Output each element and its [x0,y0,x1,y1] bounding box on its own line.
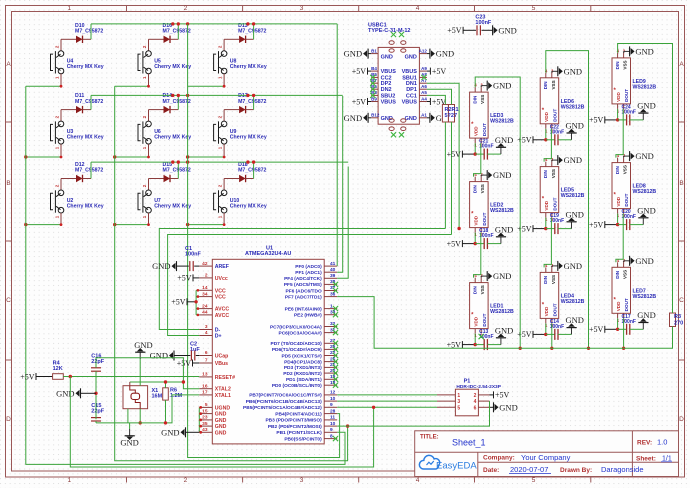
diode D15 [149,162,191,182]
ground [642,113,644,120]
svg-text:5: 5 [532,477,536,484]
svg-text:VBus: VBus [215,361,228,367]
svg-text:+5V: +5V [447,26,462,35]
wire: switch column serpentines [24,85,225,227]
switch U5 [138,39,191,86]
svg-text:PB5(PCINT5/OC1A/OC4B#/ADC12): PB5(PCINT5/OC1A/OC4B#/ADC12) [243,405,322,411]
LED LED4 WS2812B [540,263,584,328]
ground at LED9 VSS [624,46,654,56]
svg-text:GND: GND [495,325,513,335]
wire: diode nets down to U1 PF0/PF1/PF4 [337,24,348,278]
svg-text:DOUT: DOUT [482,313,487,326]
svg-text:GND: GND [215,418,227,424]
svg-text:22pF: 22pF [91,359,104,365]
wire: reset net [63,375,199,378]
svg-text:C: C [6,297,11,304]
capacitor C14 100nF [517,319,571,340]
svg-text:14: 14 [202,285,208,291]
svg-text:DN2: DN2 [381,87,392,93]
svg-text:GND: GND [493,81,511,91]
ground at LED4 VSS [552,261,582,271]
LED LED7 WS2812B [612,258,656,323]
svg-text:PF6 (ADC6/TDO: PF6 (ADC6/TDO [285,288,322,294]
ground above crystal [134,340,152,386]
svg-text:100nF: 100nF [185,252,202,258]
svg-text:36: 36 [330,291,336,297]
svg-text:A5: A5 [421,90,427,95]
svg-text:+5V: +5V [171,298,186,307]
svg-text:WS2812B: WS2812B [561,299,585,305]
svg-text:Sheet:: Sheet: [636,455,656,462]
svg-text:DOUT: DOUT [482,123,487,136]
svg-text:VDD: VDD [474,126,479,136]
svg-text:4: 4 [416,5,420,12]
svg-text:GND: GND [499,402,517,412]
svg-text:2: 2 [205,273,208,279]
svg-text:PE2 (HWB#): PE2 (HWB#) [294,313,322,319]
svg-text:100nF: 100nF [475,20,492,26]
svg-text:GND: GND [493,170,511,180]
wire: C16/C15 middle GND [56,371,98,419]
svg-text:VCC: VCC [215,295,226,301]
svg-text:DIN: DIN [472,286,477,295]
svg-text:VSS: VSS [551,169,556,178]
capacitor C15 22pF [91,403,105,421]
svg-text:40: 40 [330,267,336,273]
svg-text:6: 6 [205,350,208,356]
svg-text:Company:: Company: [483,455,515,462]
svg-text:+5V: +5V [352,67,367,76]
svg-text:REV:: REV: [637,440,652,447]
svg-text:5?27: 5?27 [445,113,458,119]
svg-text:42: 42 [202,261,208,267]
LED LED6 WS2812B [540,68,584,133]
svg-text:PD0 (OC0B/SCL/INT0): PD0 (OC0B/SCL/INT0) [272,383,322,389]
svg-text:3: 3 [300,5,304,12]
capacitor C21 100nF [447,139,501,160]
svg-text:GND: GND [637,101,655,111]
diode D17 [224,93,266,113]
svg-text:A1: A1 [421,113,427,118]
svg-text:+5V: +5V [447,150,462,159]
resistor R6 1.2M [163,388,183,401]
capacitor C1 100nF [152,246,201,271]
capacitor C17 100nF [589,314,643,335]
svg-text:8: 8 [330,433,333,439]
svg-text:A9: A9 [421,66,427,71]
svg-text:270: 270 [674,321,683,327]
wire: LED chain links [474,143,481,278]
svg-text:11: 11 [330,415,335,421]
diode D13 [224,23,266,43]
svg-text:AVCC: AVCC [215,313,230,319]
svg-text:DIN: DIN [543,275,548,284]
svg-text:+5V: +5V [447,239,462,248]
svg-text:34: 34 [202,291,208,297]
svg-text:VSS: VSS [623,165,628,174]
USB no-connect X marks [370,75,375,80]
svg-text:PD4(ICP1/ADC8): PD4(ICP1/ADC8) [284,359,322,365]
wire: GND stack bracket [161,406,202,437]
svg-text:1/1: 1/1 [662,455,672,462]
svg-text:Cherry MX Key: Cherry MX Key [230,64,267,70]
wire: LED7 DOUT to LED6 DIN [546,51,626,350]
svg-text:Cherry MX Key: Cherry MX Key [67,64,104,70]
svg-text:15: 15 [202,408,208,414]
resistor R3 270 [670,313,684,327]
diode D11 [61,93,103,113]
svg-text:GND: GND [637,205,655,215]
svg-text:GND: GND [381,55,393,61]
svg-text:PB2 (PDI/PCINT2/MOSI): PB2 (PDI/PCINT2/MOSI) [268,424,322,430]
svg-text:PB7(PCINT7/OC0A/OC1C/RTS#): PB7(PCINT7/OC0A/OC1C/RTS#) [249,393,322,399]
wire: XTAL1 net [96,395,199,425]
svg-text:PD5 (XCK1/CTS#): PD5 (XCK1/CTS#) [281,353,322,359]
capacitor C13 100nF [447,329,501,350]
switch U4 [51,39,104,86]
svg-text:GND: GND [493,271,511,281]
svg-text:TYPE-C-31-M-12: TYPE-C-31-M-12 [368,28,410,34]
svg-text:DIN: DIN [615,166,620,175]
switch U8 [214,39,267,86]
switch U3 [51,110,104,157]
USB +5V symbols [352,67,447,106]
svg-text:PC6(OC3A/OC4A#): PC6(OC3A/OC4A#) [279,330,323,336]
resistor R4 12K [20,361,63,382]
svg-text:D: D [6,416,11,423]
svg-text:PE6 (INT.6/AIN0): PE6 (INT.6/AIN0) [285,306,322,312]
svg-text:GND: GND [215,430,227,436]
svg-text:GND: GND [566,121,584,131]
svg-text:6: 6 [474,405,477,411]
LED LED1 WS2812B [470,273,514,338]
ground at LED5 VSS [552,155,582,165]
svg-text:+5V: +5V [589,116,604,125]
svg-text:WS2812B: WS2812B [490,119,514,125]
svg-text:DIN: DIN [472,95,477,104]
svg-text:Cherry MX Key: Cherry MX Key [154,134,191,140]
svg-text:PF0 (ADC0): PF0 (ADC0) [295,264,322,270]
wire: XTAL2 net [96,358,199,389]
LED LED2 WS2812B [470,172,514,237]
svg-text:WS2812B: WS2812B [490,309,514,315]
svg-text:Drawn By:: Drawn By: [560,467,592,474]
svg-text:DOUT: DOUT [624,298,629,311]
USB GND symbols [344,49,454,123]
svg-text:PD3 (TXD1/INT3): PD3 (TXD1/INT3) [284,365,322,371]
wire: LED4 DOUT to LED3 DIN [475,77,553,350]
wire: reset to P1 pin5 [70,377,375,468]
svg-text:VSS: VSS [551,80,556,89]
EasyEDA logo [419,455,477,471]
ground [642,218,644,225]
svg-text:9: 9 [330,427,333,433]
capacitor C23 100nF [447,15,517,36]
svg-text:VBUS: VBUS [381,69,397,75]
svg-text:PB6(PCINT6/OC1B/OC4B/ADC13): PB6(PCINT6/OC1B/OC4B/ADC13) [246,399,322,405]
svg-text:GND: GND [405,55,417,61]
capacitor C19 100nF [517,213,571,234]
svg-text:B4: B4 [371,66,377,71]
svg-text:A12: A12 [419,48,428,53]
crystal X1 16MHz [123,386,169,409]
svg-text:1: 1 [330,303,333,309]
svg-text:DIN: DIN [543,170,548,179]
svg-text:VDD: VDD [474,316,479,326]
svg-text:VBUS: VBUS [402,100,418,106]
svg-text:B1: B1 [371,48,377,53]
svg-text:Cherry MX Key: Cherry MX Key [230,203,267,209]
ground [571,222,573,229]
svg-text:+5V: +5V [177,359,192,368]
svg-text:ATMEGA32U4-AU: ATMEGA32U4-AU [245,251,291,257]
svg-text:1.0: 1.0 [657,438,667,447]
svg-text:GND: GND [215,412,227,418]
svg-text:SBU2: SBU2 [381,93,396,99]
capacitor C20 100nF [589,209,643,230]
svg-text:3: 3 [300,477,304,484]
svg-text:VSS: VSS [623,60,628,69]
svg-text:PC7(ICP3/CLK0/OC4A): PC7(ICP3/CLK0/OC4A) [270,324,322,330]
svg-text:PB3 (PDO/PCINT3/MISO): PB3 (PDO/PCINT3/MISO) [265,418,322,424]
svg-text:GND: GND [635,256,653,266]
svg-text:1: 1 [67,5,71,12]
svg-text:UVcc: UVcc [215,276,228,282]
svg-text:23: 23 [202,415,208,421]
svg-text:35: 35 [202,421,208,427]
wire: trunk verticals + bottom bundle to MCU [26,24,350,465]
svg-text:VSS: VSS [480,184,485,193]
svg-text:RESET#: RESET# [215,375,235,381]
svg-text:10: 10 [330,396,336,402]
svg-text:AVCC: AVCC [215,307,230,313]
svg-text:+5V: +5V [517,330,532,339]
svg-text:DIN: DIN [543,81,548,90]
switch U7 [138,179,191,225]
svg-text:VBUS: VBUS [381,100,397,106]
svg-text:44: 44 [202,310,208,316]
svg-text:GND: GND [635,46,653,56]
IC U1 ATMEGA32U4-AU (MCU) [212,246,324,444]
svg-text:7: 7 [205,358,208,364]
wire: VCC/AVCC +5V bracket [171,289,199,316]
svg-text:PF7 (ADC7/TD1): PF7 (ADC7/TD1) [285,294,322,300]
svg-text:4: 4 [474,399,477,405]
svg-text:DOUT: DOUT [482,212,487,225]
svg-text:VCC: VCC [215,288,226,294]
svg-text:DIN: DIN [615,270,620,279]
svg-text:4: 4 [205,330,208,336]
svg-text:M7_C95872: M7_C95872 [163,99,191,105]
capacitor C16 22pF [91,354,105,372]
svg-text:10: 10 [330,421,336,427]
svg-text:5: 5 [205,402,208,408]
svg-text:GND: GND [120,438,138,448]
LED LED9 WS2812B [612,48,656,113]
svg-text:C: C [679,297,684,304]
+5V at P1 pin2 [490,391,510,400]
svg-text:2: 2 [474,393,477,399]
svg-text:GND: GND [566,209,584,219]
svg-text:GND: GND [498,25,516,35]
svg-text:VSS: VSS [480,285,485,294]
svg-text:5: 5 [532,5,536,12]
svg-text:4: 4 [416,477,420,484]
svg-text:EasyEDA: EasyEDA [436,461,477,472]
switch U6 [138,110,191,157]
capacitor C24 100nF [589,104,643,125]
svg-text:WS2812B: WS2812B [561,104,585,110]
svg-text:1: 1 [457,393,460,399]
svg-text:+5V: +5V [20,372,35,381]
ground [642,323,644,330]
svg-text:+5V: +5V [432,67,447,76]
svg-text:M7_C95872: M7_C95872 [238,168,266,174]
wire: U1 PF7 to R3 to LED9 DIN [337,44,672,349]
svg-text:Cherry MX Key: Cherry MX Key [230,134,267,140]
svg-text:24: 24 [202,303,208,309]
svg-text:M7_C95872: M7_C95872 [238,99,266,105]
switch U9 [214,110,267,157]
svg-text:VDD: VDD [544,111,549,121]
connector P1 HDR-IDC-2.54-2X3P [437,379,502,416]
U1 left pins [199,261,235,437]
svg-text:M7_C95872: M7_C95872 [238,29,266,35]
svg-text:GND: GND [344,49,362,59]
svg-text:DOUT: DOUT [624,89,629,102]
svg-text:GND: GND [405,116,417,122]
svg-text:GND: GND [215,424,227,430]
svg-text:D: D [679,416,684,423]
ground [500,237,502,244]
svg-text:41: 41 [330,261,336,267]
svg-text:PF5 (ADC5/TMS): PF5 (ADC5/TMS) [284,282,322,288]
svg-text:TITLE:: TITLE: [420,435,439,441]
ground [571,133,573,140]
svg-text:GND: GND [566,315,584,325]
svg-text:GND: GND [495,135,513,145]
U1 right pins [243,261,338,443]
switch U2 [51,179,104,225]
ground at LED8 VSS [624,151,654,161]
wire: LED chain links [544,129,551,268]
svg-text:12: 12 [330,390,336,396]
svg-text:PD2 (RXD1/INT2): PD2 (RXD1/INT2) [283,371,322,377]
svg-text:VDD: VDD [616,92,621,102]
capacitor C2 1uF (UCap) [150,342,201,361]
svg-text:VDD: VDD [544,306,549,316]
svg-text:2: 2 [184,477,188,484]
svg-text:GND: GND [564,66,582,76]
switch U10 [214,179,267,225]
svg-text:Date:: Date: [483,467,499,474]
svg-text:M7_C95872: M7_C95872 [163,29,191,35]
ground at P1 pin6 [490,402,518,412]
wire: U1 PB2 wrap to P1 pin4 [337,401,489,426]
svg-text:9: 9 [330,402,333,408]
svg-text:DOUT: DOUT [552,197,557,210]
ground below crystal [120,409,142,448]
svg-text:AREF: AREF [215,264,229,270]
svg-text:1: 1 [67,477,71,484]
svg-text:DIN: DIN [615,61,620,70]
capacitor C22 100nF [517,124,571,145]
svg-text:PD6(T1/OC4D#/ADC9): PD6(T1/OC4D#/ADC9) [272,347,322,353]
svg-text:WS2812B: WS2812B [633,294,657,300]
svg-text:17: 17 [202,390,208,396]
svg-text:5: 5 [457,405,460,411]
svg-text:B: B [679,180,683,187]
diode D12 [61,162,103,182]
svg-text:2: 2 [184,5,188,12]
svg-text:WS2812B: WS2812B [633,189,657,195]
svg-text:3: 3 [205,324,208,330]
+5V UVcc [177,274,199,283]
svg-text:43: 43 [202,427,208,433]
LED LED5 WS2812B [540,157,584,222]
svg-text:GND: GND [152,261,170,271]
svg-text:+5V: +5V [517,224,532,233]
svg-text:Cherry MX Key: Cherry MX Key [67,134,104,140]
svg-text:12K: 12K [53,366,63,372]
svg-text:B12: B12 [371,113,380,118]
svg-text:Cherry MX Key: Cherry MX Key [154,64,191,70]
svg-text:VDD: VDD [544,200,549,210]
svg-text:GND: GND [495,224,513,234]
wire: LED chain links [616,109,623,262]
svg-text:39: 39 [330,273,336,279]
ground [571,328,573,335]
svg-text:GND: GND [635,151,653,161]
svg-text:VDD: VDD [474,215,479,225]
svg-text:GND: GND [134,340,152,350]
title block [415,431,679,477]
svg-text:GND: GND [161,427,179,437]
svg-text:GND: GND [637,310,655,320]
svg-text:DP1: DP1 [406,87,417,93]
svg-text:DOUT: DOUT [552,303,557,316]
svg-text:+5V: +5V [589,325,604,334]
diode D14 [149,93,191,113]
connector USBC1 TYPE-C-31-M-12 [368,23,427,138]
svg-text:Cherry MX Key: Cherry MX Key [154,203,191,209]
svg-text:D+: D+ [215,334,222,340]
svg-text:+5V: +5V [517,136,532,145]
svg-text:UGND: UGND [215,405,231,411]
LED LED3 WS2812B [470,83,514,148]
wire: U1 PB7/PB6/PB5 to P1 [337,395,437,407]
svg-text:WS2812B: WS2812B [490,208,514,214]
svg-text:UCap: UCap [215,354,229,360]
svg-text:Daragonside: Daragonside [601,465,644,474]
capacitor C18 100nF [447,228,501,249]
svg-text:WS2812B: WS2812B [633,84,657,90]
svg-text:+5V: +5V [177,274,192,283]
svg-text:GND: GND [150,351,168,361]
svg-text:PB0(SS/PCINT0): PB0(SS/PCINT0) [284,436,322,442]
svg-text:PF1 (ADC1): PF1 (ADC1) [295,270,322,276]
svg-text:A4: A4 [421,96,427,101]
svg-text:2020-07-07: 2020-07-07 [510,465,548,474]
diode D10 [61,23,103,43]
svg-text:B: B [6,180,10,187]
LED LED8 WS2812B [612,153,656,218]
svg-text:GND: GND [564,155,582,165]
svg-text:GND: GND [344,113,362,123]
diode D18 [224,162,266,182]
wire: DP1/DN1 to MCU D+/D- through R1 R2 [159,83,461,335]
svg-text:DOUT: DOUT [552,109,557,122]
